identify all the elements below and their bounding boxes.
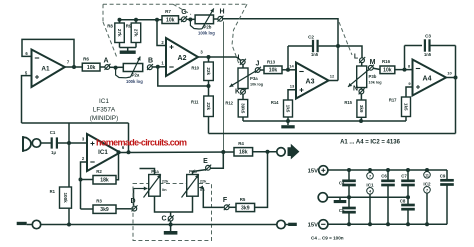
wire A2 output (198, 55, 237, 59)
svg-text:R17: R17 (389, 98, 397, 103)
svg-text:C6: C6 (381, 173, 387, 178)
svg-text:C4 .. C9 = 100n: C4 .. C9 = 100n (311, 235, 344, 240)
svg-text:B: B (148, 58, 153, 65)
node D (130, 198, 137, 211)
wire A3 output stub (328, 80, 338, 82)
node K (235, 89, 246, 96)
wire A1 non-inverting input riser (22, 76, 32, 123)
ground rail middle (243, 119, 406, 123)
svg-text:C: C (161, 216, 166, 223)
svg-text:M: M (370, 59, 376, 66)
wire R13 to A3 inverting input (282, 68, 296, 72)
wire node L to P3b (361, 63, 363, 66)
node L (354, 54, 365, 64)
node I (238, 55, 246, 65)
svg-text:P2a: P2a (132, 73, 140, 78)
wire C1 to junction (57, 141, 87, 145)
wire node C to ground rail (170, 221, 172, 225)
svg-text:15V: 15V (308, 223, 318, 229)
wire IC1 output (117, 150, 235, 154)
svg-text:1n5: 1n5 (311, 52, 319, 57)
capacitor C6 (381, 170, 395, 224)
wire P2b to node H (213, 18, 218, 20)
resistor R11 (191, 96, 213, 117)
wire A3 non-inverting input (288, 90, 296, 100)
label 15V positive (308, 169, 318, 175)
svg-text:P2b: P2b (204, 25, 212, 30)
svg-text:C9: C9 (440, 173, 446, 178)
svg-text:22k: 22k (200, 179, 207, 184)
ground bar at node C (164, 225, 178, 235)
svg-text:R1: R1 (50, 189, 56, 194)
resistor R13 (264, 59, 282, 73)
wire R17 to ground rail (405, 117, 407, 122)
wire input terminal to C1 (40, 142, 51, 144)
ground terminal bottom left (32, 220, 40, 228)
svg-text:1n5: 1n5 (424, 52, 432, 57)
svg-text:R8: R8 (107, 24, 113, 29)
node B (147, 58, 153, 71)
svg-text:J: J (256, 60, 260, 67)
output terminal (277, 148, 285, 156)
positive supply terminal (319, 166, 328, 175)
wire top row from R8 to R7 (118, 18, 163, 22)
svg-text:K: K (235, 89, 240, 96)
svg-text:A2: A2 (178, 55, 187, 62)
capacitor C2 (308, 35, 319, 58)
wire C3 to A4 output node (431, 45, 456, 47)
node G (181, 9, 187, 22)
wire node K to R12 (242, 89, 244, 100)
wire negative rail (328, 222, 448, 226)
wire IC1 inverting input (79, 162, 88, 209)
resistor R15 (344, 100, 366, 117)
svg-text:1µ: 1µ (51, 150, 56, 155)
node F (223, 197, 230, 210)
assembly line vertical (223, 22, 225, 152)
svg-text:R10: R10 (191, 66, 199, 71)
svg-text:22k: 22k (206, 67, 211, 75)
node J (255, 60, 261, 73)
node C (161, 215, 173, 222)
svg-text:H: H (219, 8, 224, 15)
wire A4 output return rail (209, 133, 456, 135)
svg-text:22k: 22k (162, 179, 169, 184)
svg-text:homemade-circuits.com: homemade-circuits.com (96, 138, 187, 148)
wire R15 to ground rail (360, 117, 362, 121)
op-amp A3 (296, 63, 329, 99)
svg-text:IC1: IC1 (366, 182, 374, 187)
wire R3 to node D (116, 208, 131, 210)
wire node G to P2b (186, 18, 195, 22)
wire R7 to node G (179, 19, 182, 21)
resistor R14 (271, 100, 293, 117)
svg-text:13: 13 (290, 84, 295, 89)
svg-text:LF357A: LF357A (93, 107, 116, 114)
svg-text:E: E (203, 158, 208, 165)
svg-text:G: G (181, 9, 187, 16)
svg-text:R14: R14 (271, 100, 279, 105)
watermark (96, 138, 187, 148)
svg-text:C2: C2 (308, 35, 314, 40)
wire A4 feedback riser (404, 46, 406, 70)
svg-text:A: A (103, 58, 108, 65)
wire R2 riser to output (116, 152, 119, 179)
potentiometer P2a (116, 57, 144, 84)
resistor R8 (107, 20, 124, 48)
svg-text:27k: 27k (133, 29, 138, 37)
IC2 supply pins (423, 170, 431, 224)
svg-text:27k: 27k (117, 29, 122, 37)
IC1 pin labels (82, 137, 125, 162)
svg-text:IC2: IC2 (423, 181, 431, 186)
wire R12 to ground rail (242, 117, 244, 121)
capacitor C1 (50, 130, 57, 155)
svg-text:10k: 10k (383, 68, 392, 74)
wire A4 non-inverting input (406, 87, 413, 97)
dashed assembly outline (103, 4, 352, 64)
svg-text:18k: 18k (100, 178, 109, 184)
capacitor C9 (440, 170, 454, 224)
resistor R17 (389, 97, 411, 117)
svg-text:100k log: 100k log (198, 30, 215, 35)
node E (203, 158, 211, 171)
negative supply terminal (319, 220, 328, 229)
op-amp IC1 (87, 134, 120, 171)
svg-text:C4: C4 (339, 181, 345, 186)
resistor R16 (380, 59, 395, 73)
svg-text:P1a: P1a (151, 169, 159, 174)
output arrow symbol (288, 144, 300, 160)
wire R16 to A4 inverting input (395, 68, 413, 72)
wire R10 R11 junction (207, 81, 211, 97)
svg-text:12: 12 (330, 74, 335, 79)
wire R11 to A4 output rail (208, 117, 210, 134)
svg-text:F: F (223, 197, 228, 204)
wire A4 feedback top (405, 45, 423, 47)
wire positive rail (328, 168, 448, 172)
wire P1a top (140, 169, 155, 175)
capacitor C3 (424, 34, 432, 58)
label quad opamp note (340, 140, 400, 146)
wire node I to P3a (242, 64, 244, 68)
svg-text:L: L (354, 54, 359, 61)
svg-text:(MINIDIP): (MINIDIP) (90, 115, 118, 122)
zero volt terminal (318, 193, 327, 202)
svg-text:A1 ... A4 = IC2 = 4136: A1 ... A4 = IC2 = 4136 (340, 140, 400, 146)
wire bootstrap rail (22, 122, 129, 124)
svg-text:22k: 22k (206, 102, 211, 110)
wire node N to R15 (360, 88, 362, 101)
wire A1 feedback loop (22, 39, 74, 67)
potentiometer P1a (144, 169, 170, 198)
wire A3 output node to node L (338, 46, 362, 58)
wire P1b wiper to node F (199, 186, 224, 208)
capacitor C4 (339, 170, 356, 197)
svg-text:14: 14 (289, 64, 294, 69)
ground below R8 R9 (120, 48, 137, 54)
wire A3 feedback top (288, 45, 312, 47)
svg-text:C3: C3 (425, 34, 431, 39)
wire bottom ground rail (40, 223, 277, 227)
svg-text:P3a: P3a (250, 76, 258, 81)
ground symbol on rail (281, 121, 294, 128)
svg-text:lin: lin (162, 188, 167, 192)
svg-text:3k9: 3k9 (241, 205, 250, 211)
svg-text:100k log: 100k log (126, 79, 143, 84)
svg-text:3k9: 3k9 (100, 207, 109, 213)
input terminal (32, 139, 40, 147)
svg-text:R6: R6 (83, 56, 89, 61)
svg-text:10k: 10k (166, 17, 175, 23)
wire A1 output (65, 65, 83, 69)
wire C2 to A3 output node (319, 44, 340, 48)
wire junction riser (68, 123, 70, 143)
dashed enclosure P1 (133, 184, 212, 241)
resistor R5 (236, 197, 255, 212)
A4 pin labels (408, 64, 453, 87)
svg-text:10k log: 10k log (369, 80, 383, 84)
svg-text:C7: C7 (401, 173, 407, 178)
wire node J to R13 (260, 69, 264, 71)
A1 pin labels (25, 51, 70, 76)
potentiometer P3a (230, 68, 264, 89)
svg-text:3k9: 3k9 (359, 105, 364, 113)
wire P1 bottoms to node C (155, 196, 193, 216)
node H (218, 8, 225, 21)
svg-text:A1: A1 (41, 66, 50, 73)
svg-text:IC1: IC1 (98, 149, 108, 156)
svg-text:IC1: IC1 (99, 98, 109, 105)
svg-text:R3: R3 (96, 199, 102, 204)
svg-text:R15: R15 (344, 100, 352, 105)
ground terminal bottom right (277, 220, 285, 228)
resistor R1 (50, 143, 72, 208)
wire R5 riser to output node (255, 152, 268, 208)
svg-text:R2: R2 (96, 169, 102, 174)
svg-text:R16: R16 (382, 59, 391, 64)
resistor R3 (81, 199, 117, 214)
wire A2 output to node I (237, 57, 241, 60)
svg-text:C1: C1 (50, 130, 56, 135)
resistor R4 (234, 141, 253, 156)
wire node D to P1a wiper (134, 187, 148, 206)
op-amp A4 (413, 60, 447, 96)
resistor R9 (126, 20, 141, 48)
potentiometer P2b (190, 8, 215, 35)
potentiometer P1b (182, 169, 208, 198)
label IC1 type (90, 98, 118, 122)
svg-text:10: 10 (447, 71, 452, 76)
wire A3 feedback riser (287, 46, 289, 70)
node A (103, 58, 110, 70)
svg-text:100k: 100k (63, 192, 68, 203)
IC1 supply pins (366, 170, 374, 224)
wire zero rail (327, 195, 410, 199)
svg-text:10k: 10k (87, 65, 96, 71)
svg-text:C8: C8 (400, 199, 406, 204)
node N (353, 86, 365, 95)
svg-text:15V: 15V (308, 169, 318, 175)
svg-text:A4: A4 (423, 76, 432, 83)
capacitor C5 (339, 197, 356, 224)
svg-text:10k: 10k (269, 68, 278, 74)
wire A3 output node down (337, 46, 339, 81)
svg-text:R9: R9 (126, 24, 132, 29)
wire A4 output stub (446, 77, 456, 79)
svg-text:R13: R13 (267, 59, 276, 64)
wire divider to A2 inverting input (158, 67, 209, 86)
wire node B to A2 inverting input (152, 65, 166, 69)
A2 pin labels (161, 40, 203, 66)
op-amp A2 (166, 38, 198, 76)
svg-text:C5: C5 (339, 208, 345, 213)
input arrow symbol (23, 136, 31, 152)
wire R4 to output terminal (253, 150, 278, 154)
svg-text:7: 7 (426, 189, 428, 193)
ground symbol bottom right (285, 223, 297, 226)
svg-text:11: 11 (425, 174, 429, 178)
svg-text:P3b: P3b (369, 74, 377, 79)
svg-text:18k: 18k (239, 150, 248, 156)
ground mark on zero rail (334, 197, 347, 203)
svg-text:1k5: 1k5 (285, 105, 290, 113)
A3 pin labels (289, 64, 335, 89)
svg-text:A3: A3 (306, 79, 315, 86)
svg-text:R4: R4 (238, 141, 244, 146)
resistor R7 (162, 9, 179, 24)
svg-text:1k5: 1k5 (403, 103, 408, 111)
potentiometer P3b (348, 66, 382, 88)
svg-text:7: 7 (369, 175, 371, 179)
wire node F to R5 (229, 206, 236, 208)
wire A4 output node down (454, 46, 458, 134)
op-amp A1 (32, 50, 65, 88)
wire node M to R16 (373, 68, 380, 69)
resistor R6 (82, 56, 100, 71)
svg-text:R5: R5 (240, 197, 246, 202)
svg-text:R12: R12 (225, 101, 233, 106)
wire node E to P1b top (193, 170, 206, 175)
capacitor C7 (401, 170, 415, 197)
svg-text:10k log: 10k log (250, 82, 264, 86)
svg-text:N: N (353, 86, 358, 93)
label capacitor note (311, 235, 344, 240)
svg-text:R11: R11 (191, 100, 199, 105)
wire R1 to ground rail (68, 208, 70, 224)
wire R6 to node A (100, 66, 105, 68)
wire loop right edge (127, 123, 131, 154)
ground bar bottom left (17, 222, 33, 225)
node M (368, 59, 376, 71)
resistor R2 (81, 169, 117, 184)
wire R14 to ground rail (287, 117, 289, 121)
resistor R12 (225, 100, 247, 118)
wire A2 non-inverting riser (157, 20, 166, 46)
svg-text:39k5: 39k5 (240, 103, 245, 114)
wire node A to P2a (110, 66, 124, 70)
svg-text:R7: R7 (165, 9, 171, 14)
label 15V negative (308, 223, 318, 229)
wire node H to A3 output node (223, 19, 338, 46)
capacitor C8 (400, 197, 415, 224)
wire node E riser to signal (211, 152, 224, 168)
resistor R10 (191, 57, 213, 81)
